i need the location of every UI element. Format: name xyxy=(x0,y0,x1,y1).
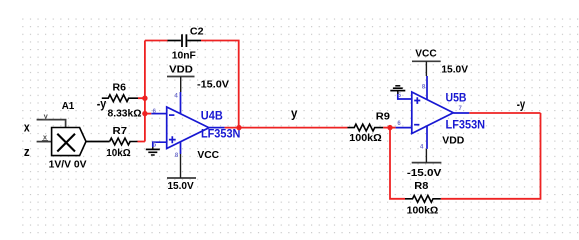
svg-text:R8: R8 xyxy=(414,181,429,192)
wire red: R9 to junction xyxy=(383,127,395,129)
resistor R9 xyxy=(348,124,384,131)
wire red: feedback down-left xyxy=(390,113,541,199)
node dot R6 junction xyxy=(142,96,147,101)
svg-text:100kΩ: 100kΩ xyxy=(349,133,382,144)
wire input z (to pin x) xyxy=(37,141,52,143)
svg-text:-y: -y xyxy=(517,96,526,111)
svg-text:U4B: U4B xyxy=(201,108,223,122)
wire red: C2 top loop xyxy=(145,41,239,128)
svg-text:x: x xyxy=(24,120,30,135)
red stub to U4B minus input xyxy=(145,113,151,115)
multiplier A1 body xyxy=(52,128,86,156)
svg-text:z: z xyxy=(24,144,30,159)
wire red: U4B output y xyxy=(225,127,348,129)
svg-text:R6: R6 xyxy=(113,83,127,94)
U4B pin stubs xyxy=(151,92,224,154)
pin name x (underlined) xyxy=(42,132,48,141)
svg-text:LF353N: LF353N xyxy=(201,129,241,141)
svg-text:VCC: VCC xyxy=(415,48,437,60)
svg-text:VDD: VDD xyxy=(442,135,464,147)
VDD power symbol (U4B) xyxy=(167,77,195,93)
resistor R8 xyxy=(405,195,441,202)
svg-text:VDD: VDD xyxy=(169,63,193,75)
svg-text:10kΩ: 10kΩ xyxy=(106,148,130,159)
resistor R7 xyxy=(110,138,138,145)
svg-text:15.0V: 15.0V xyxy=(441,64,468,76)
svg-text:C2: C2 xyxy=(190,26,204,37)
svg-text:R7: R7 xyxy=(113,126,128,137)
VCC power symbol (U5B) xyxy=(412,61,441,76)
svg-text:8.33kΩ: 8.33kΩ xyxy=(108,108,142,119)
ground (U5B + input, pointing up) xyxy=(390,86,405,94)
node dot minus-input junction xyxy=(142,111,147,116)
svg-text:1V/V 0V: 1V/V 0V xyxy=(49,160,87,171)
svg-text:U5B: U5B xyxy=(446,91,467,105)
svg-text:10nF: 10nF xyxy=(172,50,196,61)
multiplier X symbol xyxy=(57,134,75,152)
VDD power symbol (U5B) xyxy=(412,149,442,163)
resistor R6 xyxy=(102,95,138,102)
node dot U4B output xyxy=(236,125,241,130)
wire input x (to pin y) xyxy=(37,120,66,128)
svg-text:VCC: VCC xyxy=(197,149,219,161)
svg-text:15.0V: 15.0V xyxy=(167,180,193,192)
ground (U4B + input) xyxy=(146,147,160,155)
svg-text:-15.0V: -15.0V xyxy=(407,167,442,179)
pin name y (underlined) xyxy=(43,111,49,120)
svg-text:y: y xyxy=(291,106,298,121)
VCC power symbol (U4B) xyxy=(167,154,196,178)
node dot R9 junction xyxy=(387,125,392,130)
capacitor C2 xyxy=(168,34,202,47)
op-amp U4B xyxy=(167,107,209,149)
svg-text:R9: R9 xyxy=(376,111,391,122)
wire red: feedback node vertical xyxy=(138,41,145,142)
svg-text:100kΩ: 100kΩ xyxy=(407,205,439,216)
svg-text:LF353N: LF353N xyxy=(446,119,486,131)
U5B pin stubs xyxy=(396,76,470,149)
svg-text:-y: -y xyxy=(97,96,107,111)
op-amp U5B xyxy=(412,92,454,134)
svg-text:-15.0V: -15.0V xyxy=(197,78,229,90)
svg-text:A1: A1 xyxy=(62,100,75,112)
multiplier output lead xyxy=(86,141,110,143)
